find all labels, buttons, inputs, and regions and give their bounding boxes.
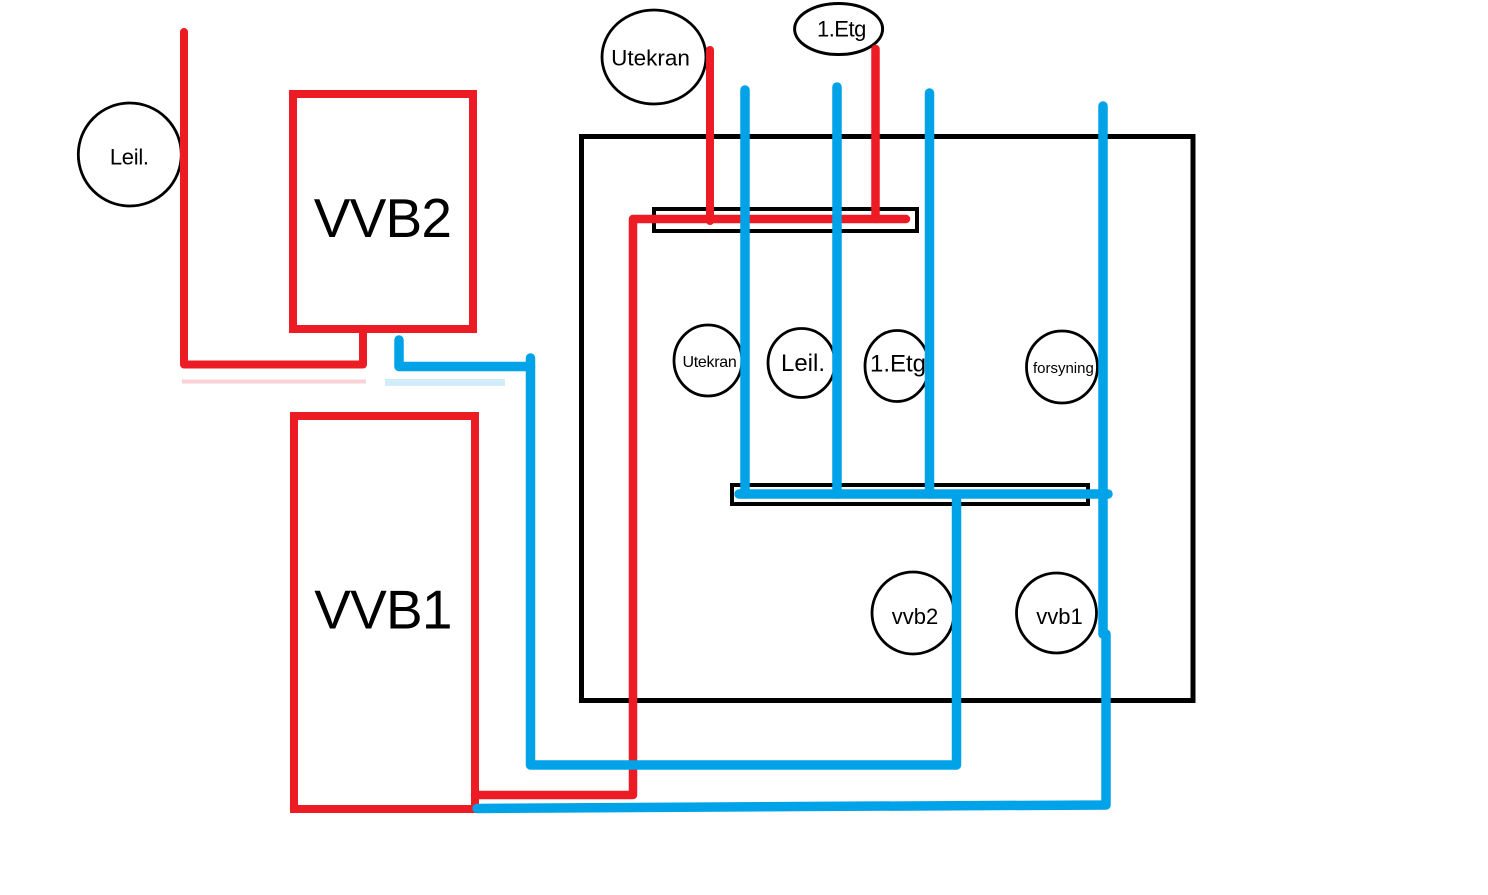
node vvb1 (manifold port) — [1017, 573, 1097, 653]
svg-text:vvb2: vvb2 — [892, 604, 938, 629]
svg-text:1.Etg: 1.Etg — [870, 351, 926, 378]
node vvb2 (manifold port) — [872, 572, 954, 654]
faint red echo mark under VVB2 outlet pipe — [182, 380, 366, 384]
faint blue echo mark under VVB2 cold pipe — [385, 379, 505, 386]
cold pipe: supply drop to VVB1 — [477, 106, 1106, 809]
hot pipe: VVB1 outlet to hot manifold — [475, 219, 906, 795]
tank VVB2 — [293, 94, 473, 329]
node Leil. (top left) — [78, 103, 181, 206]
cold water manifold bar (bottom) — [732, 485, 1088, 504]
node forsyning (manifold port) — [1027, 331, 1098, 403]
hot pipe: Utekran riser — [706, 50, 714, 221]
svg-text:Utekran: Utekran — [611, 46, 690, 71]
cold pipe: Utekran riser — [740, 90, 750, 494]
svg-text:1.Etg: 1.Etg — [817, 17, 866, 42]
cold pipe: VVB2 feed from cold manifold — [399, 340, 957, 765]
cold manifold internal pipe — [739, 489, 1108, 499]
cold pipe corner overshoot at VVB2 feed — [526, 358, 536, 367]
svg-text:VVB1: VVB1 — [314, 579, 451, 641]
svg-text:Leil.: Leil. — [781, 350, 825, 377]
hot water manifold bar (top) — [654, 209, 917, 231]
svg-text:Leil.: Leil. — [110, 145, 149, 170]
hot pipe: 1.Etg riser — [871, 49, 880, 219]
tank VVB1 — [294, 416, 475, 809]
svg-text:Utekran: Utekran — [683, 354, 737, 371]
cold pipe: Leil. riser — [832, 87, 842, 494]
svg-text:vvb1: vvb1 — [1036, 604, 1082, 629]
node Utekran (manifold port) — [674, 325, 742, 396]
svg-text:VVB2: VVB2 — [314, 187, 451, 249]
svg-text:forsyning: forsyning — [1033, 360, 1094, 377]
hot pipe: VVB2 outlet to Leil. riser — [184, 32, 363, 365]
node Leil. (manifold port) — [768, 329, 835, 398]
cold pipe: 1.Etg riser — [925, 93, 935, 494]
cabinet box (manifold cabinet) — [582, 137, 1194, 701]
node Utekran (top) — [602, 10, 706, 104]
node 1.Etg (manifold port) — [865, 331, 929, 402]
node 1.Etg (top) — [795, 4, 883, 55]
